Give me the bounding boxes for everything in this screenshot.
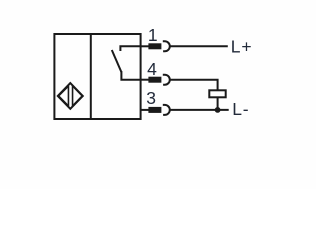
- svg-text:L+: L+: [231, 36, 253, 56]
- pin 1 terminal: [148, 43, 161, 49]
- inductive sensor symbol (diamond): [58, 83, 83, 109]
- svg-text:3: 3: [146, 88, 156, 108]
- pin 4 terminal: [148, 77, 161, 83]
- wire 3 to L-: [170, 109, 229, 111]
- sensor body box: [54, 34, 140, 119]
- socket 4: [163, 75, 170, 85]
- wire pin4 stub: [141, 79, 149, 81]
- divider line: [90, 34, 92, 119]
- socket 1: [163, 41, 170, 51]
- svg-text:L-: L-: [232, 99, 249, 119]
- junction node: [215, 107, 221, 113]
- svg-text:1: 1: [148, 25, 158, 45]
- wire pin1 stub: [141, 45, 149, 47]
- wire load to node: [217, 97, 219, 110]
- switch moving-side wire to pin 4: [121, 71, 140, 80]
- switch lever: [112, 50, 122, 72]
- svg-text:4: 4: [147, 59, 157, 79]
- wire pin3 stub: [141, 109, 149, 111]
- pin 3 terminal: [148, 107, 161, 113]
- load resistor: [209, 90, 225, 97]
- wire 4 to load: [170, 80, 218, 91]
- switch fixed contact: [120, 46, 140, 51]
- socket 3: [163, 105, 170, 115]
- wire 1 to L+: [170, 45, 228, 47]
